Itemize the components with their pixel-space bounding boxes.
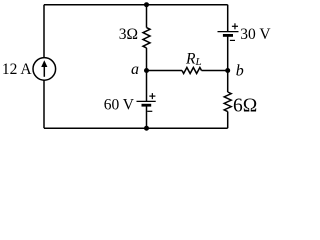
svg-text:6Ω: 6Ω <box>233 96 257 117</box>
svg-text:b: b <box>236 62 244 79</box>
svg-text:30 V: 30 V <box>240 26 271 43</box>
svg-text:3Ω: 3Ω <box>119 26 138 43</box>
svg-text:12 A: 12 A <box>2 61 33 78</box>
svg-text:a: a <box>131 61 139 78</box>
svg-text:60 V: 60 V <box>104 97 135 114</box>
